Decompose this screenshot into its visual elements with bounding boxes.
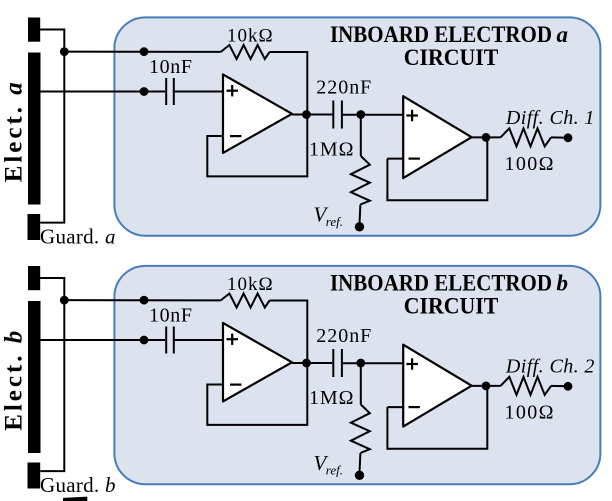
svg-text:Diff. Ch. 1: Diff. Ch. 1 bbox=[505, 107, 595, 129]
svg-text:Elect. a: Elect. a bbox=[1, 82, 28, 182]
svg-text:INBOARD ELECTROD: INBOARD ELECTROD bbox=[330, 270, 552, 295]
svg-text:INBOARD ELECTROD: INBOARD ELECTROD bbox=[330, 22, 552, 47]
svg-text:b: b bbox=[557, 270, 569, 295]
svg-text:CIRCUIT: CIRCUIT bbox=[404, 294, 499, 319]
svg-text:CIRCUIT: CIRCUIT bbox=[404, 45, 499, 70]
svg-text:Elect. b: Elect. b bbox=[1, 331, 28, 431]
svg-text:Guard. a: Guard. a bbox=[40, 225, 116, 249]
svg-text:a: a bbox=[557, 22, 569, 47]
svg-text:Guard. b: Guard. b bbox=[40, 473, 116, 497]
svg-text:Diff. Ch. 2: Diff. Ch. 2 bbox=[505, 356, 595, 378]
